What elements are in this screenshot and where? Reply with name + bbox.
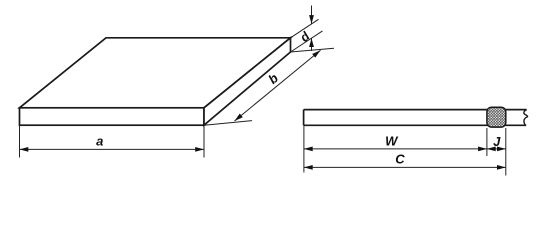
extension line J right / C right — [505, 128, 507, 176]
extension line a left — [19, 125, 21, 157]
extension line a right — [203, 125, 205, 157]
label J — [493, 134, 501, 149]
label W — [385, 134, 399, 149]
bar left edge — [303, 110, 305, 126]
label b — [265, 70, 281, 87]
svg-text:C: C — [395, 152, 405, 167]
dimension line C — [304, 165, 506, 170]
extension line W right / J left — [486, 128, 488, 156]
dimension line d lower arrow — [309, 38, 314, 51]
bar top edge — [304, 109, 527, 111]
extension line W/C left — [303, 125, 305, 172]
break symbol — [524, 110, 528, 126]
svg-text:W: W — [385, 134, 399, 149]
plate right side face — [204, 38, 291, 125]
svg-text:a: a — [96, 134, 103, 149]
svg-text:J: J — [493, 134, 501, 149]
dimension line W — [304, 147, 487, 152]
extension line d bottom — [291, 31, 323, 52]
label d — [297, 29, 312, 45]
extension line b far — [291, 48, 335, 52]
label a — [96, 134, 103, 149]
weld joint hatched blob — [487, 107, 506, 127]
dimension line d upper arrow — [309, 6, 314, 24]
label C — [395, 152, 405, 167]
dimension line a — [20, 147, 205, 152]
dimension line b — [233, 48, 322, 123]
plate front face — [20, 108, 205, 125]
extension line d top — [291, 19, 319, 38]
dimension line J — [487, 147, 506, 152]
bar bottom edge — [304, 124, 527, 126]
extension line b near — [204, 121, 252, 126]
plate top face — [20, 38, 291, 108]
